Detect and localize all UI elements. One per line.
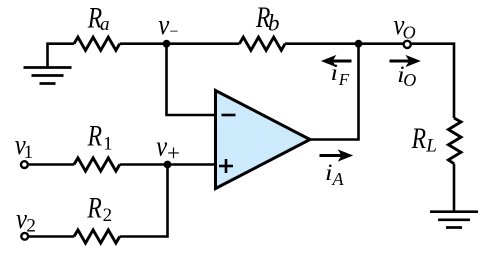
terminal v2 circle: [21, 233, 28, 240]
resistor R2: [74, 230, 120, 243]
svg-text:R: R: [411, 122, 426, 155]
label v1: [15, 130, 33, 163]
svg-text:b: b: [268, 11, 280, 36]
svg-text:i: i: [331, 60, 339, 85]
op-amp minus sign: [222, 114, 236, 117]
wire: RL to right ground: [453, 164, 456, 211]
wire: R1 to op-amp + input through node v+: [120, 163, 216, 166]
terminal vO circle: [404, 41, 411, 48]
svg-text:+: +: [167, 141, 180, 166]
resistor RL (vertical): [448, 118, 461, 164]
current arrow iO: [390, 55, 421, 90]
wire: Ra to Rb through node v-: [120, 42, 240, 45]
svg-text:2: 2: [26, 216, 36, 237]
wire: v- node down to op-amp inverting input: [167, 44, 216, 115]
svg-text:A: A: [332, 169, 345, 189]
svg-text:1: 1: [103, 134, 113, 155]
ground (left): [24, 68, 72, 84]
label R1: [87, 120, 113, 155]
label vO: [393, 10, 415, 43]
svg-text:R: R: [87, 120, 102, 153]
svg-text:a: a: [100, 14, 110, 35]
svg-text:2: 2: [103, 205, 113, 226]
terminal v1 circle: [21, 161, 28, 168]
label RL: [411, 122, 437, 157]
wire: op-amp output to junction: [310, 44, 359, 140]
op-amp U1: [216, 91, 311, 189]
svg-text:O: O: [403, 23, 416, 43]
wire: v2 to R2: [29, 235, 74, 238]
op-amp plus sign: [219, 159, 233, 173]
wire: left ground stub to Ra: [48, 44, 75, 68]
svg-text:F: F: [338, 70, 350, 89]
ground (right): [430, 212, 478, 228]
svg-text:L: L: [425, 136, 437, 157]
label v2: [16, 204, 36, 237]
wire: Rb to top-right corner down to RL: [285, 44, 454, 118]
label v-: [158, 10, 179, 41]
junction dot at output column: [355, 40, 363, 48]
svg-text:R: R: [87, 191, 102, 224]
label Ra: [87, 2, 109, 36]
current arrow iF: [321, 55, 352, 89]
svg-text:−: −: [168, 24, 179, 41]
wire: R2 right then up to node v+: [120, 165, 168, 237]
node v- dot: [163, 40, 171, 48]
node v+ dot: [164, 161, 172, 169]
svg-text:O: O: [403, 70, 416, 90]
svg-text:v: v: [156, 132, 167, 163]
resistor Ra: [74, 37, 120, 50]
resistor R1: [74, 158, 120, 171]
wire: v1 to R1: [29, 163, 74, 166]
label v+: [156, 132, 180, 166]
label Rb: [255, 1, 279, 36]
current arrow iA: [320, 149, 354, 188]
svg-text:1: 1: [24, 142, 33, 163]
label R2: [87, 191, 112, 226]
resistor Rb: [239, 37, 285, 50]
svg-text:i: i: [325, 160, 333, 185]
